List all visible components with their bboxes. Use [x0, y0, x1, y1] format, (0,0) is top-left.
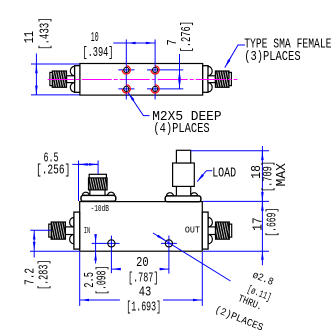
node: dimension text 17 [.669] — [252, 208, 281, 237]
svg-text:17: 17 — [252, 217, 267, 231]
wire: top view dimension 11 extension lines — [31, 64, 80, 95]
node: dimension text 20 [.787] — [128, 256, 158, 286]
component: thru hole TH1 — [108, 240, 115, 247]
node: note text TYPE SMA FEMALE (3)PLACES — [244, 37, 331, 65]
wire: dimension line 10 horizontal — [113, 42, 155, 44]
svg-text:7.2: 7.2 — [24, 268, 39, 285]
wire: thru hole center cross lines — [92, 236, 177, 274]
wire: dimension 6.5 — [72, 161, 98, 202]
svg-text:[.787]: [.787] — [128, 270, 158, 286]
node: dimension text 10 [.394] — [82, 31, 113, 61]
svg-text:-10dB: -10dB — [91, 203, 110, 214]
svg-text:[.283]: [.283] — [37, 260, 53, 291]
svg-text:10: 10 — [91, 31, 99, 46]
node: dimension text 11 [.433] — [23, 17, 53, 50]
component: tapped hole H3 top-right — [151, 66, 159, 74]
node: note text M2X5 DEEP (4)PLACES — [152, 110, 221, 137]
component: coupled port SMA connector J3 on top — [81, 174, 116, 201]
component: thru hole TH2 — [165, 240, 172, 247]
component: top view right SMA connector J2 — [203, 66, 232, 93]
component: bottom view coupler body — [80, 202, 203, 252]
svg-text:[.669]: [.669] — [265, 208, 281, 237]
svg-text:[.256]: [.256] — [36, 163, 70, 179]
wire: dimension 43 — [80, 252, 203, 306]
node: dimension text 18 [.709] MAX — [250, 161, 290, 192]
wire: dimension line 7 vertical — [179, 54, 181, 89]
svg-text:(4)PLACES: (4)PLACES — [153, 121, 209, 137]
svg-text:[1.693]: [1.693] — [126, 300, 161, 316]
wire: leader M2X5 DEEP — [128, 93, 149, 116]
svg-text:OUT: OUT — [185, 225, 200, 236]
component: bottom view left SMA connector IN port — [49, 212, 80, 249]
node: top view magenta center line — [48, 79, 238, 81]
wire: dimension 18 MAX right side — [191, 146, 269, 201]
component: bottom view right SMA connector OUT port — [202, 212, 231, 249]
node: note text diameter 2.8 THRU (2)PLACES — [213, 270, 275, 335]
component: termination LOAD on top — [165, 150, 201, 201]
wire: hole center cross lines top view — [118, 39, 183, 99]
component: top view coupler body — [80, 64, 203, 96]
wire: dimension 7.2 left side — [30, 230, 80, 257]
wire: dimension line 11 vertical — [35, 54, 37, 95]
svg-text:IN: IN — [84, 225, 90, 236]
node: dimension text 6.5 [.256] — [36, 152, 70, 179]
svg-text:(3)PLACES: (3)PLACES — [244, 49, 300, 65]
node: dimension text 7 [.276] — [166, 21, 195, 53]
svg-text:20: 20 — [136, 256, 149, 271]
component: tapped hole H2 bottom-left — [122, 85, 130, 93]
component: tapped hole H1 top-left — [122, 66, 130, 74]
node: dimension text 7.2 [.283] — [24, 260, 53, 291]
component: top view left SMA connector J1 — [50, 66, 80, 93]
node: dimension text 43 [1.693] — [126, 286, 161, 316]
wire: leader diameter note — [153, 233, 231, 281]
svg-text:[.098]: [.098] — [95, 266, 111, 295]
wire: leader LOAD — [197, 171, 212, 182]
wire: leader TYPE SMA FEMALE — [225, 45, 245, 68]
svg-text:[.394]: [.394] — [82, 45, 113, 61]
svg-text:11: 11 — [23, 31, 38, 43]
node: dimension text 2.5 [.098] — [83, 266, 111, 295]
svg-text:[.276]: [.276] — [179, 21, 195, 53]
svg-text:MAX: MAX — [275, 163, 290, 187]
wire: dimension 17 right side — [203, 202, 269, 265]
component: tapped hole H4 bottom-right — [151, 85, 159, 93]
wire: dimension 20 — [112, 268, 169, 270]
svg-text:LOAD: LOAD — [212, 167, 236, 182]
svg-text:[.433]: [.433] — [37, 17, 53, 50]
svg-text:7: 7 — [166, 39, 181, 45]
svg-text:43: 43 — [139, 286, 152, 301]
wire: dimension 2.5 — [95, 235, 97, 264]
